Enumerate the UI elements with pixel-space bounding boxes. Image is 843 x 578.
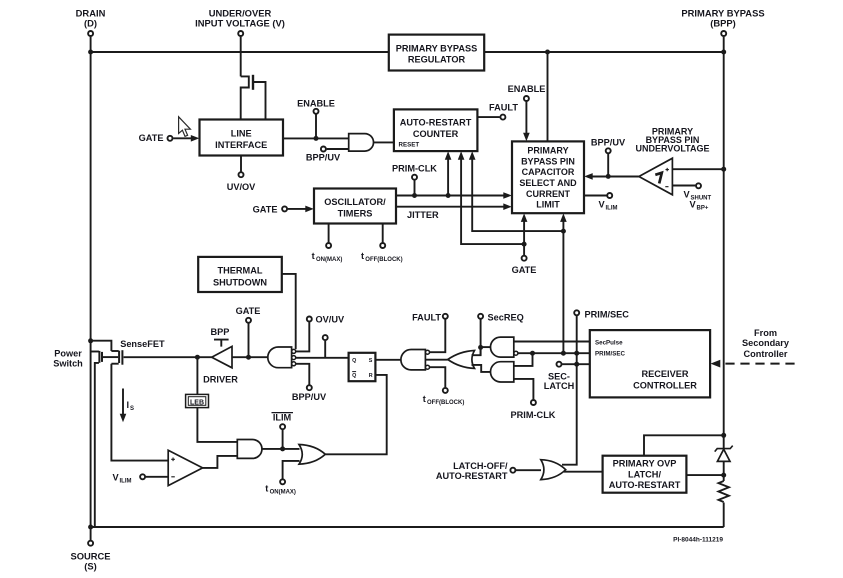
pin DRAIN (D) [88,31,93,36]
wire latch Q output to AND U2 [296,357,349,359]
node top-left corner [88,50,93,55]
svg-text:BPP/UV: BPP/UV [292,392,327,402]
wire OR U9 output to OVP block [564,471,603,473]
pin PRIMARY BYPASS (BPP) [721,31,726,36]
pin BPP/UV (left) [321,147,326,152]
diode zener D1 [717,449,730,461]
wire SecPulse line [514,341,590,343]
wire left rail DRAIN to SOURCE [90,37,92,527]
transistor HV channel bar [252,75,254,90]
svg-text:AUTO-RESTART: AUTO-RESTART [400,118,472,128]
svg-text:REGULATOR: REGULATOR [408,55,466,65]
node bottom-left corner [88,525,93,530]
svg-text:BPP: BPP [211,327,230,337]
gate OR U4 (reset) [299,445,325,465]
pin BPP/UV (sensefet logic) [307,385,312,390]
block PRIMARY OVP LATCH/AUTO-RESTART [603,456,687,493]
svg-text:V: V [113,473,120,483]
svg-text:INPUT VOLTAGE (V): INPUT VOLTAGE (V) [195,18,285,29]
svg-text:CAPACITOR: CAPACITOR [522,167,575,177]
svg-text:JITTER: JITTER [407,210,439,220]
svg-text:GATE: GATE [236,306,261,316]
pin PRIM/SEC [574,310,579,315]
wire AND U2 output to driver [232,356,268,358]
wire top rail D to BPP [91,51,724,53]
svg-text:AUTO-RESTART: AUTO-RESTART [609,480,681,490]
wire AND U8 output to OR U6 [472,365,491,372]
gate AND U7 (secpulse) [491,337,514,357]
svg-text:PRIMARY OVP: PRIMARY OVP [613,459,677,469]
svg-text:BPP/UV: BPP/UV [306,153,341,163]
svg-text:S: S [130,406,134,412]
gate OR U9 (latch-off) [541,460,566,480]
svg-text:ON(MAX): ON(MAX) [316,257,342,263]
svg-text:BP+: BP+ [697,206,709,212]
svg-text:PRIM-CLK: PRIM-CLK [392,164,437,174]
wire OR U6 output to AND U5 [425,359,447,361]
gate AND U8 (primclk) [490,362,513,382]
svg-text:OSCILLATOR/: OSCILLATOR/ [324,197,386,207]
svg-text:ILIM: ILIM [273,413,292,423]
svg-text:COUNTER: COUNTER [413,129,459,139]
pin UNDER/OVER INPUT VOLTAGE (V) [238,31,243,36]
wire PRIM/SEC pin down to latch-off OR [562,316,577,465]
wire node into cap-select box and down to receiver [562,220,564,231]
pin ILIM [280,424,285,429]
pin UV/OV below line interface [240,156,242,172]
wire PRIM/SEC line [518,352,590,354]
resistor R1 [719,481,729,502]
wire AND to AUTO-RESTART COUNTER [374,141,394,143]
svg-text:ILIM: ILIM [606,206,618,212]
svg-text:Secondary: Secondary [742,338,790,348]
wire counter feedback vertical 1 [447,158,449,196]
wire sensefet source [111,363,118,365]
svg-text:ILIM: ILIM [120,479,132,485]
pin unnamed (latch sense) [323,335,328,340]
block LINE INTERFACE [200,120,284,156]
pin GATE (cap select) [523,244,525,255]
svg-text:AUTO-RESTART: AUTO-RESTART [436,471,508,481]
svg-text:SecREQ: SecREQ [488,313,524,323]
wire counter feedback vertical 3 [472,158,563,231]
wire right BPP rail [723,37,725,449]
pin SecREQ [478,314,483,319]
svg-text:PRIM/SEC: PRIM/SEC [585,310,630,320]
svg-text:SHUTDOWN: SHUTDOWN [213,278,267,288]
svg-text:LATCH/: LATCH/ [628,470,661,480]
wire comparator output to AND [203,456,238,468]
pin OV/UV (sensefet logic) [307,317,312,322]
svg-text:PRIM/SEC: PRIM/SEC [595,351,625,358]
wire gate link [103,356,119,358]
block PRIMARY BYPASS PIN CAPACITOR SELECT AND CURRENT LIMIT [512,141,584,213]
node IS current arrow [122,389,124,417]
svg-text:CURRENT: CURRENT [526,189,571,199]
wire LEB branch [196,357,198,394]
cursor artifact [179,117,191,137]
wire ENABLE down arrow into cap-select box [525,102,527,134]
pin VILIM (comparator) [140,474,145,479]
gate OR U6 (secreq) [448,351,475,369]
node top-right corner [721,50,726,55]
svg-text:OV/UV: OV/UV [316,315,345,325]
svg-text:GATE: GATE [139,133,164,143]
svg-text:GATE: GATE [512,265,537,275]
wire bottom rail [91,526,724,528]
svg-text:RESET: RESET [399,142,420,149]
node top rail junction [545,50,550,55]
wire AND U8 input 2 from PRIM-CLK [514,379,534,400]
wire sense current down to comparator [111,364,168,461]
wire gate node up into cap-select box [523,220,525,244]
wire thermal shutdown to AND gate input [282,274,296,349]
wire OVP block top to BPP rail [644,435,724,455]
wire latch S input from AND U5 [375,359,401,361]
svg-text:SecPulse: SecPulse [595,340,623,347]
svg-text:LATCH-OFF/: LATCH-OFF/ [453,461,508,471]
svg-text:(D): (D) [84,18,97,29]
svg-text:FAULT: FAULT [412,313,441,323]
gate AND U2 3-input inverted (gate drive) [268,347,292,368]
svg-text:t: t [423,394,426,404]
svg-text:GATE: GATE [253,205,278,215]
svg-text:SenseFET: SenseFET [120,339,165,349]
svg-text:LEB: LEB [190,399,204,406]
svg-text:I: I [127,400,130,410]
svg-text:Q: Q [352,373,356,379]
node PRIM-CLK junctions [412,193,417,198]
wire OR U4 output to latch R [325,375,386,454]
wire GATE to LINE INTERFACE with arrow [173,137,191,139]
svg-text:(BPP): (BPP) [710,18,736,29]
svg-text:t: t [265,484,268,494]
svg-text:SELECT AND: SELECT AND [519,178,577,188]
pin SOURCE (S) [88,541,93,546]
svg-text:Switch: Switch [53,359,83,369]
pin VSHUNT / VBP+ [672,185,695,187]
wire PRIM-CLK line to cap-select box [396,195,504,197]
block LEB [186,394,209,407]
pin VILIM (cap select) [584,195,607,197]
gate AND U1 (enable/bpp) [349,134,374,152]
pin tOFF(BLOCK) (lower) [443,388,448,393]
wire LEB to AND gate [197,408,237,442]
svg-text:V: V [690,200,697,210]
transistor HV input (gate staple) [241,76,249,119]
svg-text:UV/OV: UV/OV [227,182,256,192]
svg-text:TIMERS: TIMERS [338,209,373,219]
svg-text:PRIMARY: PRIMARY [527,146,568,156]
svg-text:UNDERVOLTAGE: UNDERVOLTAGE [635,144,709,154]
svg-text:R: R [369,373,373,379]
wire AND U3 output to OR [262,448,300,450]
svg-text:PRIM-CLK: PRIM-CLK [511,410,556,420]
wire LINE INTERFACE to AND gate [283,137,349,139]
node drain rail junction [88,338,93,343]
svg-text:LIMIT: LIMIT [536,200,560,210]
svg-text:DRIVER: DRIVER [203,375,238,385]
svg-text:SEC-: SEC- [548,371,570,381]
wire JITTER line to cap-select box [396,206,504,208]
pin tON(MAX) (or gate) [280,479,285,484]
svg-text:PI-8044h-111219: PI-8044h-111219 [673,537,723,544]
node ENABLE junction [314,136,319,141]
pin FAULT (top) [477,116,499,118]
wire counter feedback vertical 2 [461,158,524,244]
svg-text:V: V [599,200,606,210]
svg-text:INTERFACE: INTERFACE [215,140,267,150]
svg-text:LATCH: LATCH [544,381,575,391]
svg-text:t: t [361,251,364,261]
svg-text:Controller: Controller [744,349,788,359]
pin tON(MAX) oscillator [328,224,330,243]
svg-text:From: From [754,328,777,338]
svg-text:S: S [369,358,373,364]
wire drain rail to sensefet drain [91,341,112,351]
svg-text:FAULT: FAULT [489,103,518,113]
svg-text:ENABLE: ENABLE [297,99,335,109]
svg-text:BPP/UV: BPP/UV [591,138,626,148]
flip-flop SR latch [349,353,376,381]
svg-text:Q: Q [352,358,356,364]
svg-text:ON(MAX): ON(MAX) [270,490,296,496]
block OSCILLATOR/TIMERS [314,189,396,224]
wire AND U7 output [481,346,491,348]
block RECEIVER CONTROLLER [590,330,710,397]
wire V-pin to HV transistor [240,37,242,77]
op-amp current limit comparator [168,450,202,485]
gate AND U3 (ilim) [237,440,262,459]
block PRIMARY BYPASS REGULATOR [389,35,484,71]
svg-text:LINE: LINE [231,129,252,139]
wire AND U7 output junction down [480,347,482,355]
wire driver to sensefet gate [124,356,212,358]
pin tOFF(BLOCK) oscillator [382,224,384,243]
svg-text:BYPASS PIN: BYPASS PIN [521,156,575,166]
svg-text:CONTROLLER: CONTROLLER [633,381,697,391]
pin SEC-LATCH [557,362,562,367]
svg-text:OFF(BLOCK): OFF(BLOCK) [427,400,464,406]
wire From Secondary Controller dashed [725,363,798,365]
wire comparator output to cap-select box [592,176,639,178]
svg-text:PRIMARY BYPASS: PRIMARY BYPASS [396,44,478,54]
wire comparator + input to BPP rail [672,168,723,170]
svg-text:RECEIVER: RECEIVER [642,369,689,379]
gate AND U5 2-input inverted (fault/toff) [401,350,425,370]
wire OVP block right to BPP rail [686,474,723,476]
svg-text:ENABLE: ENABLE [508,84,546,94]
wire AND U8 input 1 from PRIM/SEC [514,353,533,366]
svg-text:t: t [312,251,315,261]
block AUTO-RESTART COUNTER [394,109,478,151]
pin PRIM-CLK (lower) [531,400,536,405]
block THERMAL SHUTDOWN [198,257,282,292]
svg-text:THERMAL: THERMAL [218,266,263,276]
svg-text:(S): (S) [84,561,97,572]
svg-text:Power: Power [54,349,82,359]
wire HV transistor drain tap [253,82,265,120]
svg-text:V: V [684,190,691,200]
svg-text:OFF(BLOCK): OFF(BLOCK) [365,257,402,263]
wire top rail to cap-select box [547,52,549,141]
